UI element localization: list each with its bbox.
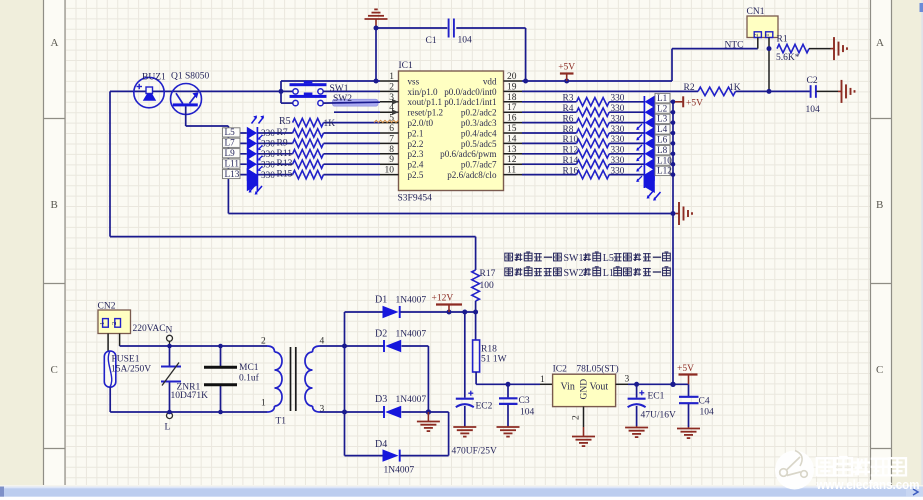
- svg-text:FUSE1: FUSE1: [112, 355, 140, 365]
- svg-text:330: 330: [261, 170, 275, 180]
- svg-text:N: N: [166, 326, 173, 336]
- svg-text:330: 330: [261, 139, 275, 149]
- svg-text:C2: C2: [807, 76, 818, 86]
- svg-text:BUZ1: BUZ1: [142, 73, 166, 83]
- svg-text:5.6K*: 5.6K*: [776, 53, 800, 63]
- svg-text:T1: T1: [276, 417, 287, 427]
- svg-text:330: 330: [611, 103, 625, 113]
- svg-text:330: 330: [611, 124, 625, 134]
- svg-text:330: 330: [611, 113, 625, 123]
- svg-text:4: 4: [320, 337, 325, 347]
- svg-text:R15: R15: [277, 170, 293, 180]
- svg-text:104: 104: [520, 408, 535, 418]
- svg-text:A: A: [51, 37, 59, 49]
- svg-text:L5: L5: [225, 127, 236, 137]
- svg-text:L6: L6: [657, 135, 668, 145]
- svg-text:L4: L4: [657, 124, 668, 134]
- svg-text:L13: L13: [225, 169, 240, 179]
- svg-text:D1: D1: [375, 295, 387, 306]
- svg-text:1: 1: [261, 399, 266, 409]
- svg-text:L3: L3: [657, 114, 668, 124]
- svg-text:reset/p1.2: reset/p1.2: [408, 108, 444, 118]
- svg-text:330: 330: [611, 145, 625, 155]
- svg-text:+5V: +5V: [686, 99, 703, 109]
- svg-text:1: 1: [540, 375, 545, 385]
- svg-text:2: 2: [753, 33, 760, 36]
- svg-text:L12: L12: [657, 166, 672, 176]
- svg-text:330: 330: [261, 149, 275, 159]
- svg-text:D4: D4: [375, 439, 387, 450]
- svg-text:vdd: vdd: [483, 76, 497, 86]
- svg-text:L10: L10: [657, 155, 672, 165]
- svg-text:20: 20: [507, 72, 517, 82]
- svg-text:SW1: SW1: [330, 84, 349, 94]
- svg-text:p0.0/adc0/int0: p0.0/adc0/int0: [444, 87, 497, 97]
- svg-text:xin/p1.0: xin/p1.0: [408, 87, 439, 97]
- svg-text:p2.3: p2.3: [408, 149, 424, 159]
- svg-text:+5V: +5V: [558, 63, 575, 73]
- svg-text:13: 13: [507, 145, 517, 155]
- svg-text:47U/16V: 47U/16V: [641, 411, 677, 421]
- svg-text:R11: R11: [277, 149, 293, 159]
- svg-text:330: 330: [611, 155, 625, 165]
- svg-text:www.elecfans.com: www.elecfans.com: [816, 478, 920, 492]
- svg-text:R3: R3: [563, 94, 574, 104]
- svg-text:SW1: SW1: [564, 253, 584, 264]
- svg-text:1N4007: 1N4007: [384, 466, 415, 476]
- svg-text:9: 9: [389, 155, 394, 165]
- svg-text:IC1: IC1: [399, 61, 414, 71]
- svg-text:p0.6/adc6/pwm: p0.6/adc6/pwm: [440, 149, 496, 159]
- svg-text:15A/250V: 15A/250V: [111, 365, 151, 375]
- svg-text:330: 330: [611, 165, 625, 175]
- svg-text:R4: R4: [563, 104, 574, 114]
- svg-text:CN2: CN2: [98, 302, 116, 312]
- svg-text:R8: R8: [563, 125, 574, 135]
- svg-text:15: 15: [507, 124, 517, 134]
- svg-text:p0.4/adc4: p0.4/adc4: [461, 128, 497, 138]
- svg-text:EC1: EC1: [648, 392, 665, 402]
- svg-text:R6: R6: [563, 114, 574, 124]
- svg-text:R18: R18: [481, 345, 497, 355]
- svg-text:104: 104: [806, 105, 821, 115]
- svg-text:Vout: Vout: [590, 382, 609, 393]
- svg-text:330: 330: [611, 134, 625, 144]
- svg-text:p0.5/adc5: p0.5/adc5: [461, 139, 497, 149]
- svg-text:p2.2: p2.2: [408, 139, 424, 149]
- svg-text:GND: GND: [580, 379, 590, 400]
- svg-text:L11: L11: [225, 158, 240, 168]
- svg-text:B: B: [876, 199, 883, 211]
- svg-text:NTC: NTC: [725, 41, 744, 51]
- svg-text:1K: 1K: [324, 119, 336, 129]
- svg-text:330: 330: [261, 159, 275, 169]
- svg-text:1: 1: [764, 33, 771, 36]
- svg-text:470UF/25V: 470UF/25V: [452, 447, 498, 457]
- svg-text:SW2: SW2: [564, 268, 584, 279]
- svg-text:R13: R13: [277, 159, 293, 169]
- svg-text:+12V: +12V: [432, 294, 454, 304]
- svg-text:10: 10: [385, 166, 395, 176]
- svg-text:14: 14: [507, 134, 517, 144]
- svg-text:p2.5: p2.5: [408, 170, 424, 180]
- svg-text:104: 104: [700, 408, 715, 418]
- svg-text:2: 2: [261, 337, 266, 347]
- svg-text:R14: R14: [563, 156, 579, 166]
- svg-text:p2.1: p2.1: [408, 128, 424, 138]
- svg-text:R5: R5: [279, 116, 291, 127]
- svg-text:8: 8: [389, 145, 394, 155]
- svg-text:Q1 S8050: Q1 S8050: [171, 72, 210, 82]
- svg-text:L: L: [165, 423, 171, 433]
- svg-text:R16: R16: [563, 166, 579, 176]
- svg-text:C1: C1: [426, 36, 437, 46]
- svg-text:2: 2: [572, 415, 582, 420]
- svg-text:D2: D2: [375, 329, 387, 340]
- svg-text:100: 100: [480, 281, 495, 291]
- svg-text:L1: L1: [603, 268, 614, 279]
- svg-text:D3: D3: [375, 394, 387, 405]
- svg-text:330: 330: [611, 93, 625, 103]
- svg-text:MC1: MC1: [239, 363, 259, 373]
- svg-text:C: C: [876, 364, 883, 376]
- svg-text:330: 330: [261, 128, 275, 138]
- svg-text:Vin: Vin: [561, 382, 575, 393]
- svg-text:0.1uf: 0.1uf: [239, 373, 260, 384]
- svg-text:220VAC: 220VAC: [133, 324, 166, 334]
- svg-text:p2.6/adc8/clo: p2.6/adc8/clo: [447, 170, 497, 180]
- svg-text:L5: L5: [603, 253, 614, 264]
- svg-text:2: 2: [111, 322, 118, 325]
- svg-text:L2: L2: [657, 103, 668, 113]
- svg-text:R12: R12: [563, 146, 579, 156]
- svg-text:p2.0/t0: p2.0/t0: [408, 118, 434, 128]
- svg-text:3: 3: [320, 405, 325, 415]
- svg-text:R7: R7: [277, 128, 288, 138]
- svg-text:p0.3/adc3: p0.3/adc3: [461, 118, 497, 128]
- svg-text:IC2: IC2: [553, 365, 568, 375]
- svg-text:B: B: [51, 199, 58, 211]
- svg-text:1N4007: 1N4007: [396, 330, 427, 340]
- svg-text:L1: L1: [657, 93, 668, 103]
- svg-text:2: 2: [389, 82, 394, 92]
- svg-text:L8: L8: [657, 145, 668, 155]
- svg-text:12: 12: [507, 155, 517, 165]
- svg-text:6: 6: [389, 124, 394, 134]
- svg-text:7: 7: [389, 134, 394, 144]
- svg-text:R1: R1: [777, 35, 788, 45]
- svg-text:16: 16: [507, 114, 517, 124]
- svg-text:R2: R2: [684, 83, 695, 93]
- svg-text:p0.1/adc1/int1: p0.1/adc1/int1: [444, 97, 496, 107]
- svg-text:18: 18: [507, 93, 517, 103]
- svg-text:S3F9454: S3F9454: [398, 194, 433, 204]
- svg-text:vss: vss: [408, 76, 420, 86]
- svg-text:EC2: EC2: [476, 402, 493, 412]
- svg-text:11: 11: [507, 166, 516, 176]
- svg-text:3: 3: [625, 375, 630, 385]
- svg-text:1: 1: [389, 72, 394, 82]
- svg-text:xout/p1.1: xout/p1.1: [408, 97, 443, 107]
- svg-text:R9: R9: [277, 138, 288, 148]
- svg-text:L9: L9: [225, 148, 236, 158]
- svg-text:1: 1: [99, 322, 106, 325]
- svg-text:R17: R17: [480, 269, 496, 279]
- svg-text:C3: C3: [519, 396, 530, 406]
- svg-text:CN1: CN1: [747, 7, 765, 17]
- svg-text:L7: L7: [225, 138, 236, 148]
- svg-text:p2.4: p2.4: [408, 160, 424, 170]
- svg-text:1N4007: 1N4007: [396, 296, 427, 306]
- svg-text:SW2: SW2: [333, 94, 352, 104]
- svg-text:R10: R10: [563, 135, 579, 145]
- svg-text:1N4007: 1N4007: [396, 395, 427, 405]
- svg-text:C4: C4: [699, 397, 710, 407]
- svg-text:51 1W: 51 1W: [481, 355, 507, 365]
- svg-text:10D471K: 10D471K: [171, 391, 209, 401]
- svg-text:p0.2/adc2: p0.2/adc2: [461, 108, 497, 118]
- svg-text:17: 17: [507, 103, 517, 113]
- svg-text:p0.7/adc7: p0.7/adc7: [461, 160, 497, 170]
- svg-text:A: A: [876, 37, 884, 49]
- svg-text:C: C: [51, 364, 58, 376]
- svg-text:78L05(ST): 78L05(ST): [576, 364, 618, 375]
- svg-text:104: 104: [458, 36, 473, 46]
- svg-text:+5V: +5V: [677, 364, 694, 374]
- svg-text:19: 19: [507, 82, 517, 92]
